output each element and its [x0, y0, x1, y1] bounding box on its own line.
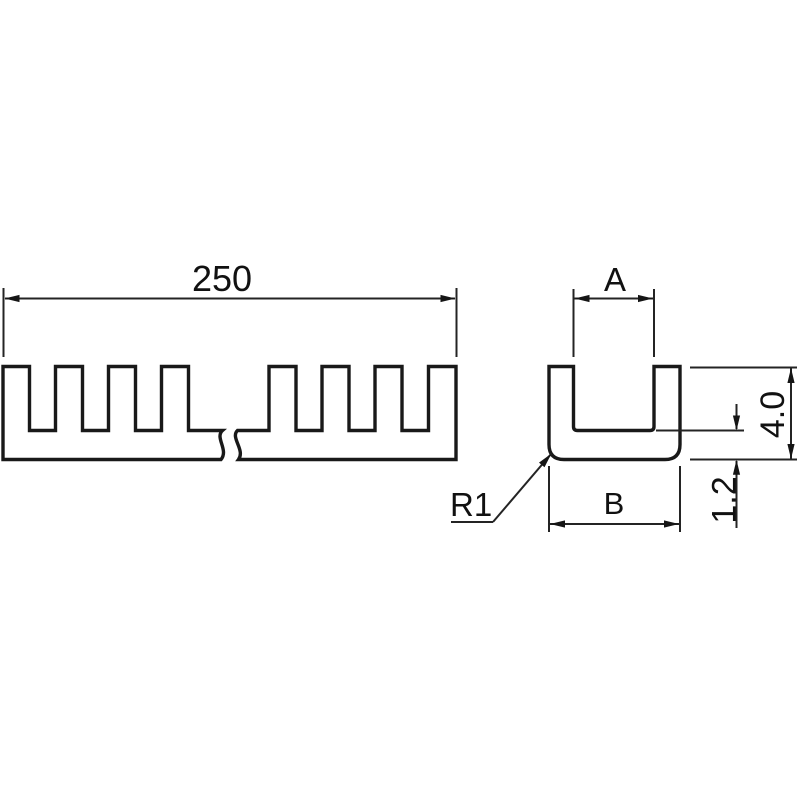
- dimension 250: left arrowhead: [5, 295, 20, 302]
- svg-text:A: A: [604, 261, 626, 298]
- dimension 250: dimension line: [5, 298, 455, 300]
- U-channel cross-section outline: [549, 367, 680, 460]
- dimension B: dimension line: [550, 523, 679, 525]
- radius label R1 leader diagonal line: [493, 454, 552, 523]
- dimension 4.0: top extension line: [690, 367, 797, 369]
- dimension 4.0: top arrowhead: [787, 368, 794, 383]
- svg-text:B: B: [604, 486, 625, 521]
- svg-text:250: 250: [192, 258, 252, 299]
- svg-text:R1: R1: [450, 486, 492, 523]
- dimension A: right arrowhead: [638, 295, 653, 302]
- dimension 4.0: dimension line: [790, 368, 792, 459]
- dimension A: left arrowhead: [575, 295, 590, 302]
- dimension B: left arrowhead: [550, 520, 565, 527]
- svg-text:4.0: 4.0: [754, 391, 792, 438]
- dimension 4.0: bottom arrowhead: [787, 444, 794, 459]
- radius label R1 leader horizontal tail: [451, 521, 493, 523]
- comb profile (left of break): [3, 367, 223, 460]
- dimension 1.2: upper dimension line: [736, 404, 738, 429]
- radius label R1 leader arrowhead: [539, 454, 552, 468]
- dimension 250: left extension line: [3, 288, 5, 357]
- dimension 1.2: upper arrowhead: [733, 416, 740, 431]
- dimension A: left extension line: [573, 289, 575, 357]
- dimension B: right arrowhead: [664, 520, 679, 527]
- dimension B: left extension line: [548, 466, 550, 532]
- dimension A: dimension line: [574, 298, 654, 300]
- comb profile (right of break): [235, 367, 456, 460]
- dimension 4.0: bottom extension line: [690, 459, 797, 461]
- dimension A: right extension line: [653, 289, 655, 357]
- dimension 1.2: lower dimension line: [736, 461, 738, 528]
- dimension 1.2: middle extension line: [656, 430, 744, 432]
- dimension 1.2: lower arrowhead: [733, 460, 740, 475]
- dimension 250: right extension line: [456, 288, 458, 357]
- dimension 250: right arrowhead: [441, 295, 456, 302]
- svg-text:1.2: 1.2: [706, 476, 744, 523]
- dimension B: right extension line: [679, 466, 681, 532]
